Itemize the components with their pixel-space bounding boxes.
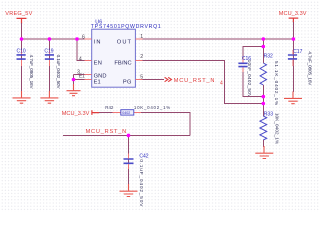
pin 2 stub <box>135 54 143 60</box>
svg-text:4: 4 <box>220 81 223 87</box>
svg-text:FB/NC: FB/NC <box>114 61 131 67</box>
wire C10 lead <box>21 39 23 92</box>
svg-text:VREG_5V: VREG_5V <box>5 11 32 17</box>
capacitor C19 <box>44 49 61 90</box>
svg-text:MCU_RST_N: MCU_RST_N <box>86 129 127 135</box>
wire VREG_5V drop <box>21 23 23 39</box>
pin 4 stub <box>79 57 92 63</box>
ground under C42 <box>120 184 138 197</box>
wire C17 lead <box>292 39 294 92</box>
junction C16 bottom <box>262 95 266 99</box>
junction rail C19 <box>48 37 52 41</box>
op-amp U6 TPS74501PQWDRVRQ1 body <box>91 19 162 87</box>
wire R42 to reset net <box>141 113 190 136</box>
svg-text:51.1K_0402_1%: 51.1K_0402_1% <box>274 61 279 106</box>
svg-text:PG: PG <box>123 79 132 85</box>
svg-text:OUT: OUT <box>117 39 132 45</box>
wire R32 top lead <box>262 39 264 63</box>
capacitor C42 <box>124 153 149 207</box>
ground under C10 <box>13 91 31 103</box>
svg-text:0.1uF_0402_50V: 0.1uF_0402_50V <box>138 159 144 207</box>
capacitor C16 <box>238 56 252 98</box>
resistor R42 <box>105 105 171 115</box>
svg-text:10nF_0402_50V: 10nF_0402_50V <box>247 60 252 99</box>
wire FB net <box>143 60 264 103</box>
pin E1 stub <box>79 74 92 80</box>
ground under C17 <box>284 92 302 104</box>
svg-text:4: 4 <box>79 57 82 63</box>
capacitor C10 <box>17 49 34 90</box>
ground under C19 <box>40 91 58 103</box>
svg-text:E1: E1 <box>94 79 101 85</box>
wire R32 bottom lead <box>262 85 264 104</box>
junction rail C10 <box>20 37 24 41</box>
power symbol MCU_3.3V bottom <box>62 110 100 117</box>
junction FB node <box>262 102 266 106</box>
off-page connector MCU_RST_N <box>165 77 223 86</box>
svg-text:1: 1 <box>140 34 143 40</box>
junction rail R32 <box>262 37 266 41</box>
pin 1 stub <box>135 34 143 40</box>
svg-text:IN: IN <box>94 39 102 45</box>
wire R33 bottom lead <box>262 140 264 147</box>
wire MCU_RST_N net <box>63 134 190 136</box>
wire C16 bracket top <box>243 47 263 64</box>
svg-text:TPS74501PQWDRVRQ1: TPS74501PQWDRVRQ1 <box>91 24 162 30</box>
junction E1 gnd <box>72 78 76 82</box>
wire MCU_3.3V drop <box>292 22 294 39</box>
junction rail EN <box>75 37 79 41</box>
power symbol MCU_3.3V top <box>279 11 307 23</box>
svg-text:MCU_RST_N: MCU_RST_N <box>174 78 215 84</box>
wire GND pin to ground <box>74 74 85 84</box>
wire R33 top lead <box>262 104 264 117</box>
wire output rail <box>135 38 293 40</box>
svg-text:R32: R32 <box>264 54 273 60</box>
svg-text:0402: 0402 <box>122 111 130 115</box>
junction C42 tap <box>127 134 131 138</box>
svg-text:R42: R42 <box>105 105 114 110</box>
wire MCU_3.3V to R42 <box>99 112 112 114</box>
resistor R32 <box>260 54 279 106</box>
ground under R33 <box>255 146 273 159</box>
pin 3 stub <box>77 69 92 75</box>
wire C42 lead <box>128 135 130 184</box>
svg-text:4.7uF_0805_16V: 4.7uF_0805_16V <box>29 55 34 90</box>
wire C16 bottom lead <box>243 72 263 97</box>
svg-text:10K_0402_1%: 10K_0402_1% <box>134 105 171 110</box>
pin 5 stub <box>135 74 143 80</box>
svg-text:10K_0402_1%: 10K_0402_1% <box>274 113 279 144</box>
svg-text:0.1uF_0402_50V: 0.1uF_0402_50V <box>56 55 61 90</box>
svg-text:MCU_3.3V: MCU_3.3V <box>62 111 90 117</box>
svg-text:MCU_3.3V: MCU_3.3V <box>279 11 307 17</box>
svg-text:C10: C10 <box>17 49 26 55</box>
resistor R33 <box>260 111 279 144</box>
capacitor C17 <box>288 49 313 86</box>
wire PG net <box>143 79 164 81</box>
ground under U6 <box>67 84 81 96</box>
pin 6 stub <box>82 34 92 40</box>
power symbol VREG_5V <box>5 11 32 24</box>
svg-text:6: 6 <box>82 34 85 40</box>
wire C19 lead <box>48 39 50 92</box>
wire E1 pad to ground <box>74 79 85 81</box>
wire 5V input rail <box>22 38 92 40</box>
svg-text:EN: EN <box>94 61 103 67</box>
svg-text:4.7uF_0805_16V: 4.7uF_0805_16V <box>307 51 312 86</box>
wire EN tie to rail <box>77 39 85 60</box>
svg-text:C17: C17 <box>293 49 302 55</box>
junction C16 top <box>262 45 266 49</box>
svg-text:2: 2 <box>140 54 143 60</box>
junction rail C17 <box>292 37 296 41</box>
svg-text:C19: C19 <box>44 49 53 55</box>
svg-text:R33: R33 <box>264 111 273 117</box>
